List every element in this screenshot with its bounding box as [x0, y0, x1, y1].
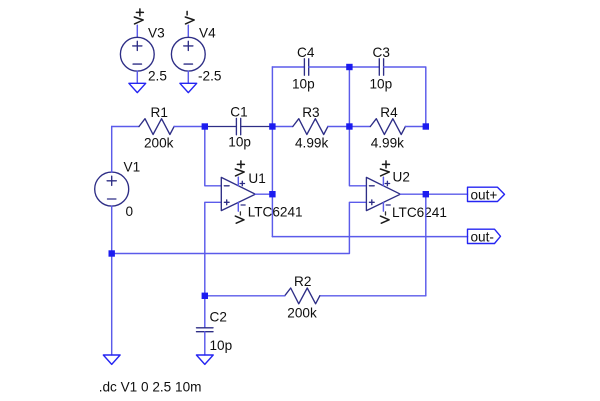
svg-text:R2: R2	[294, 274, 311, 289]
voltage source V1	[95, 172, 129, 206]
wire R2 right lead	[320, 295, 426, 297]
svg-text:C1: C1	[230, 104, 247, 119]
svg-text:-2.5: -2.5	[198, 69, 221, 84]
wire V1 node down to ground	[111, 254, 113, 356]
wire right column U2 out down to R2 row	[425, 194, 427, 296]
net flag out+	[468, 187, 505, 201]
svg-text:C2: C2	[210, 310, 227, 325]
svg-text:V3: V3	[148, 26, 165, 41]
svg-text:4.99k: 4.99k	[371, 135, 404, 150]
wire V3 to ground	[136, 71, 138, 83]
wire node C down to U2 inverting input	[349, 127, 366, 186]
svg-text:10p: 10p	[292, 77, 315, 92]
wire U1 output	[255, 193, 272, 195]
svg-text:200k: 200k	[144, 135, 174, 150]
voltage source V4	[171, 37, 205, 71]
node R3-R4 junction	[346, 123, 352, 129]
wire R4 left lead	[349, 126, 370, 128]
resistor R2	[285, 288, 320, 304]
svg-text:10p: 10p	[210, 338, 233, 353]
ground (C2)	[196, 355, 213, 364]
svg-text:10p: 10p	[228, 135, 251, 150]
net flag out-	[468, 229, 501, 243]
op-amp U1	[221, 177, 255, 210]
resistor R4	[370, 119, 405, 135]
wire R1 left lead	[112, 126, 139, 128]
svg-text:LTC6241: LTC6241	[392, 205, 447, 220]
svg-text:2.5: 2.5	[148, 69, 167, 84]
net flag + (above V3)	[134, 9, 143, 24]
op-amp U2	[366, 177, 400, 210]
net flag - (above V4)	[185, 11, 194, 24]
wire node B column (C4 row to U1 output, down to out- row)	[271, 67, 273, 237]
node U2 output junction	[423, 191, 429, 197]
voltage source V3	[120, 37, 154, 71]
wire U1 noninverting input down to node R2C2	[205, 202, 222, 295]
wire V1 bottom	[111, 206, 113, 253]
wire C3 left lead	[349, 66, 379, 68]
node U1 output junction	[269, 191, 275, 197]
wire U1 V+ stub	[237, 177, 239, 185]
wire out- row (from U1 output column to out- flag)	[272, 236, 467, 238]
wire V4 to ground	[187, 71, 189, 83]
wire U2 output to out+ flag	[426, 193, 468, 195]
wire node A down to U1 inverting input	[205, 127, 222, 186]
ground (V3)	[129, 83, 146, 92]
node R1-C1 junction	[202, 123, 208, 129]
wire U2 V+ stub	[382, 177, 384, 185]
capacitor C1	[205, 118, 273, 134]
net flag + (U1 V+)	[235, 161, 244, 176]
svg-text:R4: R4	[380, 105, 398, 120]
wire R3 to node C	[328, 126, 350, 128]
svg-text:R1: R1	[151, 105, 168, 120]
capacitor C3	[379, 59, 383, 75]
net flag - (U1 V-)	[235, 212, 244, 223]
resistor R1	[139, 119, 174, 135]
svg-text:.dc V1 0 2.5 10m: .dc V1 0 2.5 10m	[99, 379, 202, 394]
node C1-R3-C4 junction	[269, 123, 275, 129]
wire C2 to ground	[204, 332, 206, 355]
wire U2 noninverting input down to V1 row	[112, 202, 367, 253]
wire U2 output	[400, 193, 425, 195]
capacitor C2	[197, 328, 214, 332]
resistor R3	[293, 119, 328, 135]
node C4-C3 junction	[346, 64, 352, 70]
svg-text:U2: U2	[393, 170, 410, 185]
net flag + (U2 V+)	[380, 161, 389, 176]
capacitor C4	[304, 59, 308, 75]
svg-text:10p: 10p	[370, 77, 393, 92]
wire V1 top to R1 row	[111, 127, 113, 173]
wire U2 V- stub	[382, 203, 384, 212]
ground (V1)	[103, 355, 120, 364]
wire V4 flag stub	[187, 25, 189, 37]
svg-text:4.99k: 4.99k	[295, 135, 328, 150]
svg-text:out-: out-	[471, 230, 494, 245]
ground (V4)	[180, 83, 197, 92]
svg-text:C4: C4	[297, 45, 315, 60]
svg-text:V4: V4	[199, 26, 216, 41]
svg-text:V1: V1	[124, 160, 141, 175]
svg-text:200k: 200k	[287, 306, 317, 321]
wire C4 to node C top	[309, 66, 350, 68]
svg-text:LTC6241: LTC6241	[248, 204, 303, 219]
wire U1 V- stub	[237, 203, 239, 212]
net flag - (U2 V-)	[380, 212, 389, 223]
wire node R2C2 down to C2	[204, 296, 206, 328]
wire R1 to node A	[174, 126, 205, 128]
svg-text:0: 0	[126, 204, 134, 219]
node R2-C2 junction	[202, 293, 208, 299]
wire C4 left lead	[272, 66, 304, 68]
svg-text:U1: U1	[248, 171, 265, 186]
wire R4 to right column	[405, 126, 425, 128]
wire R3 left lead	[272, 126, 292, 128]
svg-text:C3: C3	[373, 45, 390, 60]
wire V3 flag stub	[136, 25, 138, 37]
svg-text:out+: out+	[471, 187, 498, 202]
node R4-right junction	[423, 123, 429, 129]
svg-text:R3: R3	[302, 105, 319, 120]
wire R2 left lead	[205, 295, 285, 297]
wire node C top down	[348, 67, 350, 127]
node V1 bottom junction	[109, 250, 115, 256]
wire C3 to right column	[384, 67, 426, 127]
